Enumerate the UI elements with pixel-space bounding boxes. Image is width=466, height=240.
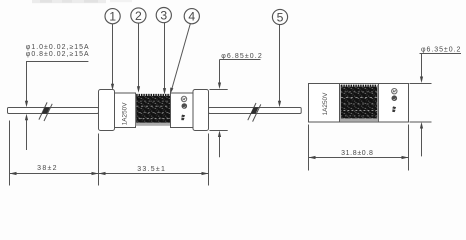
knurled sand section left view [136,94,171,126]
svg-text:38±2: 38±2 [37,165,58,172]
leader line 1 [111,24,114,91]
callout balloon 3 [156,8,171,23]
dimension text 38±2 [37,165,58,172]
dimension text 33.5±1 [137,166,166,173]
knurled sand section right view [340,85,378,122]
svg-text:2: 2 [135,9,142,23]
marking 1A250V on left view [121,102,128,125]
fuse F1 left lead wire [8,108,99,114]
dimension text 31.8±0.8 [341,150,373,157]
body diameter lower arrow [420,122,423,156]
cap diameter leader [218,60,261,90]
svg-text:1A250V: 1A250V [322,92,329,115]
approval mark circle b (right view) [392,95,398,101]
fuse F1 body left section [115,93,136,128]
lead diameter lower arrow [25,114,28,150]
cap diameter text φ6.85±0.2 [221,53,263,60]
svg-text:φ1.0±0.02,≥15A: φ1.0±0.02,≥15A [26,44,90,51]
dimension 38±2 extension line left [9,121,11,186]
fuse F1 right end cap [193,90,209,131]
leader line 2 [137,23,140,93]
body diameter extension bottom [410,121,432,123]
body diameter text φ6.35±0.2 [421,47,461,54]
svg-text:33.5±1: 33.5±1 [137,166,166,173]
lead diameter upper arrow [25,101,28,108]
fuse F2 body outline (right view) [309,84,409,123]
svg-text:φ6.35±0.2: φ6.35±0.2 [421,47,461,54]
approval mark circle a (right view) [392,89,397,94]
svg-text:5: 5 [277,11,284,25]
lead diameter leader bracket [26,62,88,103]
dimension 31.8±0.8 extension left [308,125,310,171]
fuse F1 left end cap [99,90,115,131]
svg-text:3: 3 [160,9,167,23]
approval mark circle b (left view) [182,103,188,109]
svg-text:φ0.8±0.02,≥15A: φ0.8±0.02,≥15A [26,51,90,58]
body diameter extension top [410,83,432,85]
dimension 31.8±0.8 extension right [408,125,410,171]
fuse F1 right lead wire [209,108,302,114]
cap diameter extension top [210,89,228,91]
callout balloon 1 [105,9,120,24]
marking 1A250V on right view [322,92,329,115]
svg-text:φ6.85±0.2: φ6.85±0.2 [221,53,263,60]
dimension line 38±2 and 33.5±1 [10,172,209,175]
leader line 3 [163,23,166,95]
svg-text:1A250V: 1A250V [121,102,128,125]
callout balloon 5 [272,9,287,24]
cap diameter extension bottom [210,130,228,132]
cap diameter lower arrow [218,131,221,158]
faint cropped text remnant top edge [32,0,106,3]
approval mark circle a (left view) [181,96,186,101]
callout balloon 2 [131,8,146,23]
approval mark UL glyph (right view) [392,106,396,112]
leader line 4 [170,24,190,94]
break mark on right lead [248,103,261,122]
callout balloon 4 [184,9,199,24]
approval mark UL glyph (left view) [181,115,185,121]
fuse F2 divider left [339,84,341,123]
svg-text:31.8±0.8: 31.8±0.8 [341,150,373,157]
lead diameter note text [26,44,90,58]
dimension extension line at cap right face [208,134,210,186]
leader line 5 [278,25,281,108]
svg-text:4: 4 [188,10,195,24]
svg-text:1: 1 [109,10,116,24]
body diameter leader [420,54,462,84]
dimension extension line at cap left face [98,134,100,186]
fuse F1 body right section [171,93,194,128]
fuse F2 divider right [378,84,380,123]
dimension line 31.8±0.8 [309,156,409,159]
break mark on left lead [39,102,52,121]
